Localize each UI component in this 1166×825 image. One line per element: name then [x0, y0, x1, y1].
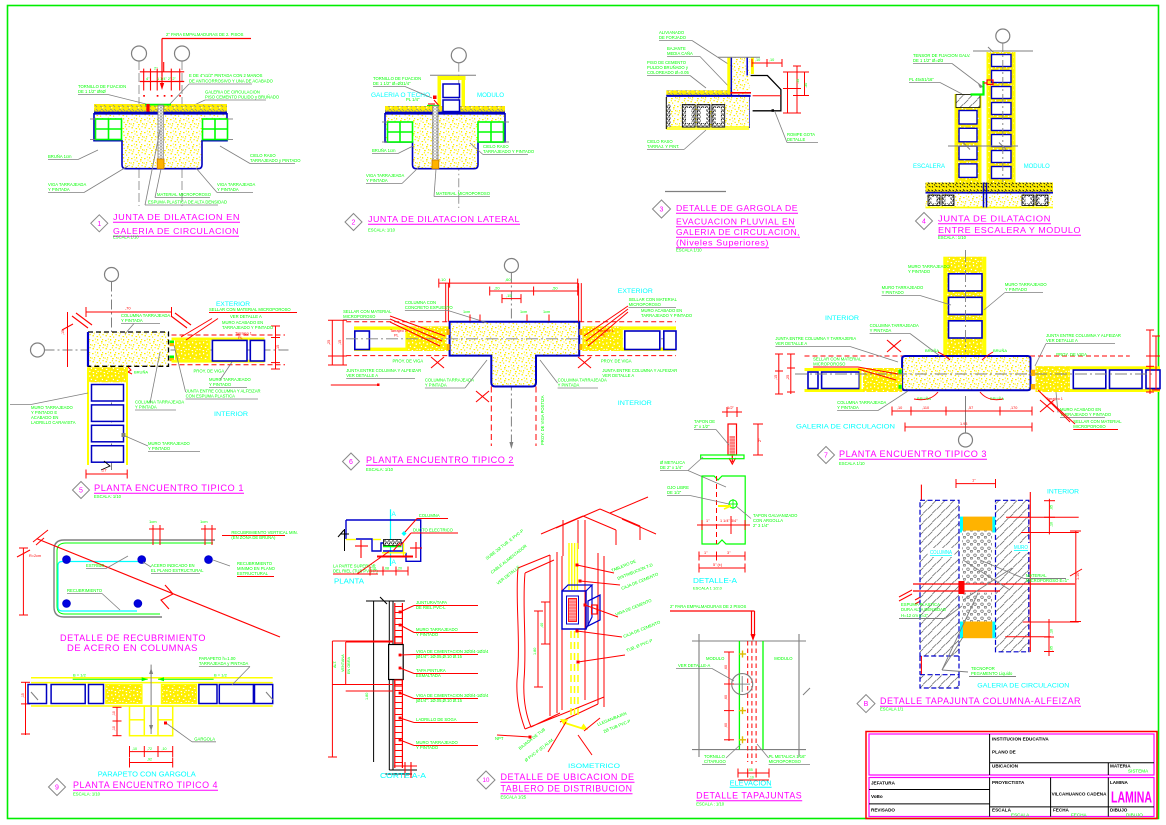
svg-text:PL: PL	[238, 336, 243, 340]
steel plate	[145, 104, 171, 106]
svg-text:INSTITUCION EDUCATIVA: INSTITUCION EDUCATIVA	[992, 737, 1049, 742]
right wall alfeizar	[172, 338, 265, 341]
svg-text:PLANTA ENCUENTRO TIPICO 2: PLANTA ENCUENTRO TIPICO 2	[366, 455, 514, 465]
svg-text:VER DETALLE A: VER DETALLE A	[602, 373, 634, 378]
gargoyle spout outline	[751, 76, 781, 111]
svg-text:ALT.: ALT.	[333, 661, 337, 668]
svg-text:DETALLE-A: DETALLE-A	[693, 578, 737, 585]
red dim vertical	[728, 652, 730, 741]
separator line	[665, 191, 726, 193]
svg-text:,10: ,10	[1050, 522, 1054, 527]
svg-text:,170: ,170	[1010, 406, 1017, 410]
column verticals	[561, 556, 563, 710]
svg-text:1cm: 1cm	[543, 310, 550, 314]
bottom yellow line	[31, 705, 273, 707]
svg-text:5: 5	[79, 488, 83, 495]
svg-text:,70: ,70	[125, 306, 131, 311]
gargola left dims	[116, 707, 118, 735]
svg-text:JUNTA DE DILATACION: JUNTA DE DILATACION	[938, 214, 1051, 224]
stem dashed red	[490, 387, 492, 447]
svg-text:LAMINA: LAMINA	[1111, 790, 1152, 807]
title detail 1	[91, 215, 108, 232]
svg-text:Y PINTADO: Y PINTADO	[209, 382, 232, 387]
gray leaders crossing	[963, 560, 1010, 590]
svg-text:Y PINTADO: Y PINTADO	[148, 446, 171, 451]
break diagonal red	[37, 539, 280, 637]
svg-text:CORTE A-A: CORTE A-A	[380, 773, 426, 780]
svg-text:,15: ,15	[774, 375, 778, 380]
red stud dots	[143, 95, 145, 97]
svg-text:PLANTA: PLANTA	[334, 579, 364, 586]
svg-text:MICROPOROSO: MICROPOROSO	[813, 362, 846, 367]
svg-text:VoBo: VoBo	[871, 794, 883, 799]
svg-text:,60: ,60	[724, 665, 728, 670]
mid level line	[948, 145, 1018, 147]
detail 7: planta encuentro tipico 3	[774, 250, 1160, 466]
svg-text:JUNTA DE DILATACION LATERAL: JUNTA DE DILATACION LATERAL	[368, 214, 520, 224]
slab top line	[385, 112, 505, 114]
bottom dims	[738, 772, 769, 774]
svg-text:.27: .27	[101, 468, 107, 473]
title block	[866, 732, 1157, 819]
svg-text:MODULO: MODULO	[1024, 163, 1050, 170]
main column concrete	[88, 332, 169, 366]
title detail 2	[345, 214, 362, 231]
svg-text:1cm: 1cm	[520, 310, 527, 314]
top yellow lines	[31, 677, 273, 679]
svg-text:MICROPOROSO: MICROPOROSO	[629, 302, 662, 307]
svg-text:TARRAJEADO Y PINTADO: TARRAJEADO Y PINTADO	[483, 149, 535, 154]
green span arrows	[73, 678, 148, 680]
expansion joint strip	[158, 105, 163, 159]
svg-text:1cm: 1cm	[200, 519, 208, 524]
conduits top yellow	[568, 543, 570, 590]
svg-text:10: 10	[483, 777, 490, 784]
tablero panel blue	[562, 591, 586, 629]
svg-text:,05: ,05	[1050, 505, 1054, 510]
columna hatched	[920, 500, 959, 656]
svg-text:INTERIOR: INTERIOR	[618, 400, 652, 407]
svg-text:Y PINTADA: Y PINTADA	[121, 318, 143, 323]
svg-text:TARRAJEADO Y PINTADO: TARRAJEADO Y PINTADO	[641, 313, 693, 318]
slab top line	[94, 112, 227, 114]
svg-text:MODULO: MODULO	[477, 92, 504, 99]
svg-text:R=2cm: R=2cm	[29, 554, 41, 558]
red dashed line top	[805, 355, 941, 357]
title detail 8	[857, 695, 875, 713]
svg-text:Y PINTADO: Y PINTADO	[908, 269, 931, 274]
svg-text:,10: ,10	[769, 58, 774, 62]
svg-text:ESCALA 1/1: ESCALA 1/1	[880, 707, 904, 712]
svg-text:.10: .10	[440, 277, 446, 282]
isometrico: tablero de distribucion	[477, 497, 662, 800]
svg-text:,57: ,57	[968, 406, 973, 410]
detail 5: planta encuentro tipico 1	[10, 268, 297, 500]
svg-text:BRUÑA 1cm: BRUÑA 1cm	[372, 148, 396, 153]
title detail 10	[477, 771, 495, 789]
red dims above spout	[752, 62, 782, 64]
tall right dim	[1075, 531, 1077, 622]
svg-text:MICROPOROSO: MICROPOROSO	[769, 759, 802, 764]
svg-text:INTERIOR: INTERIOR	[1047, 489, 1079, 496]
svg-text:B: B	[864, 701, 869, 708]
main column	[902, 356, 1030, 390]
grid circle left	[31, 343, 45, 357]
top gray line	[430, 74, 476, 76]
slab top line	[666, 95, 750, 97]
svg-text:CON ESPUMA PLASTICA: CON ESPUMA PLASTICA	[186, 394, 236, 399]
svg-text:DE 1 1/2" Ø=Ø3: DE 1 1/2" Ø=Ø3	[913, 58, 944, 63]
svg-text:E DE 4"x1/2" PINTADA CON 2 MAN: E DE 4"x1/2" PINTADA CON 2 MANOS	[189, 73, 263, 78]
svg-text:1": 1"	[972, 478, 976, 483]
svg-text:,50: ,50	[552, 285, 558, 290]
red leaders with dots	[577, 565, 614, 573]
svg-text:PROY. DE VIGA: PROY. DE VIGA	[194, 369, 225, 374]
svg-text:,10: ,10	[162, 747, 167, 751]
detail 1: junta de dilatacion en galeria de circulacion	[48, 32, 301, 240]
centerline	[510, 273, 512, 445]
red X marks	[431, 357, 444, 368]
expansion joint strip	[433, 106, 438, 160]
svg-text:TABLERO DE DISTRIBUCION: TABLERO DE DISTRIBUCION	[501, 784, 633, 794]
yellow hook	[718, 505, 731, 507]
svg-text:PLANTA ENCUENTRO TIPICO 1: PLANTA ENCUENTRO TIPICO 1	[94, 483, 244, 493]
svg-text:Y PINTADA: Y PINTADA	[48, 187, 70, 192]
wall blocks	[28, 685, 47, 704]
red X marks	[887, 340, 901, 352]
svg-text:DIBUJO: DIBUJO	[1126, 812, 1143, 817]
red fixing detail	[433, 96, 437, 100]
detail 2: junta de dilatacion lateral	[345, 48, 535, 233]
window grid left	[388, 122, 413, 142]
svg-text:PL: PL	[394, 334, 399, 338]
svg-text:GALERIA DE CIRCULACION: GALERIA DE CIRCULACION	[796, 424, 895, 431]
dim lines	[537, 611, 539, 687]
svg-text:CONCRETO EXPUESTO: CONCRETO EXPUESTO	[405, 305, 454, 310]
title detail 5	[73, 482, 90, 499]
svg-text:MICROPOROSO: MICROPOROSO	[1073, 424, 1106, 429]
svg-text:ESCALERA: ESCALERA	[913, 163, 946, 170]
modulo wall above	[438, 76, 466, 80]
corner dim verticals	[445, 283, 447, 322]
anchor plate red comb	[140, 71, 184, 73]
right edge dims	[1149, 330, 1151, 394]
svg-text:JEFATURA: JEFATURA	[871, 781, 896, 786]
wall break mark	[101, 461, 110, 470]
detail circle	[732, 674, 753, 695]
magenta box top	[869, 734, 1154, 775]
outer red frame	[866, 732, 1157, 819]
left dim	[22, 548, 24, 615]
svg-text:SISTEMA: SISTEMA	[1128, 769, 1149, 774]
svg-text:,20: ,20	[397, 567, 402, 571]
bottom dims	[699, 555, 745, 557]
svg-text:ELEVACION: ELEVACION	[730, 781, 772, 788]
yellow screw marks	[739, 653, 746, 655]
top red dim	[86, 311, 172, 313]
svg-text:Tarrajeo 1: Tarrajeo 1	[597, 329, 614, 333]
svg-text:VER DETALLE-A: VER DETALLE-A	[678, 663, 710, 668]
svg-text:Y PINTADA: Y PINTADA	[425, 383, 447, 388]
red marks	[360, 540, 362, 558]
svg-text:Y PINTADA: Y PINTADA	[837, 405, 859, 410]
grid circle top	[105, 268, 119, 282]
svg-text:,15: ,15	[61, 330, 65, 335]
orange joint pads	[447, 329, 450, 335]
svg-text:ESCALA: 1/10: ESCALA: 1/10	[73, 792, 101, 797]
left wall	[805, 368, 903, 371]
svg-text:1 1/4" 3/4": 1 1/4" 3/4"	[720, 519, 738, 523]
svg-text:,10: ,10	[749, 776, 754, 780]
grid circle	[451, 48, 466, 63]
svg-text:,10: ,10	[371, 567, 376, 571]
svg-text:,15: ,15	[21, 693, 25, 698]
svg-text:1.10: 1.10	[1076, 573, 1080, 580]
bottom red dim	[86, 473, 127, 475]
svg-text:GARGOLA: GARGOLA	[194, 737, 215, 742]
svg-text:MEDIA CAÑA: MEDIA CAÑA	[667, 51, 693, 56]
svg-text:DE ANTICORROSIVO Y UNA DE ACAB: DE ANTICORROSIVO Y UNA DE ACABADO	[189, 79, 274, 84]
orange joint pads	[1031, 370, 1036, 376]
slab body concrete	[94, 114, 227, 169]
svg-text:6: 6	[349, 459, 353, 466]
top dims	[439, 282, 578, 284]
svg-text:GALERIA DE CIRCULACION,: GALERIA DE CIRCULACION,	[676, 227, 800, 237]
window grid left	[96, 119, 122, 140]
steel bars	[63, 556, 71, 564]
svg-text:VER DETALLE A: VER DETALLE A	[775, 341, 807, 346]
right wall	[1036, 366, 1160, 369]
svg-text:1.93: 1.93	[960, 422, 967, 426]
grid line B	[181, 61, 183, 206]
slab body	[666, 97, 749, 127]
ladder rungs	[395, 606, 403, 608]
svg-text:2: 2	[352, 220, 356, 227]
svg-text:COLOREADO Ø=0.05: COLOREADO Ø=0.05	[647, 70, 689, 75]
joint pads column-wall	[170, 341, 175, 344]
svg-text:DETALLE DE GARGOLA DE: DETALLE DE GARGOLA DE	[676, 203, 798, 213]
red joint lines	[913, 583, 1075, 585]
svg-text:A: A	[392, 559, 397, 566]
svg-text:PL: PL	[601, 334, 606, 338]
svg-text:VILCAHUANCO CADENA: VILCAHUANCO CADENA	[1052, 792, 1108, 797]
red diamond marker	[402, 531, 407, 536]
svg-text:FECHA: FECHA	[1071, 812, 1088, 817]
svg-text:,10: ,10	[112, 711, 116, 716]
svg-text:DETALLE TAPAJUNTAS: DETALLE TAPAJUNTAS	[696, 791, 802, 801]
svg-text:,110: ,110	[922, 406, 929, 410]
svg-text:Tarrajeo 1: Tarrajeo 1	[235, 332, 252, 336]
svg-text:VER DETALLE A: VER DETALLE A	[346, 373, 378, 378]
svg-text:ESCALA 1 1/2.0: ESCALA 1 1/2.0	[693, 586, 723, 591]
detalle tapajuntas : elevacion	[670, 604, 810, 807]
svg-text:ESCALA : 1/10: ESCALA : 1/10	[696, 802, 725, 807]
joint gap lines	[983, 183, 985, 208]
grid circle bottom	[959, 433, 973, 447]
svg-text:DE FORJADO: DE FORJADO	[659, 35, 687, 40]
modulo wall blocks	[443, 84, 460, 98]
bottom yellow arrows	[565, 723, 584, 729]
detail 8: detalle tapajunta columna-alfeizar	[857, 478, 1082, 713]
grid line A	[138, 61, 140, 206]
main tube green rect	[702, 476, 745, 544]
svg-text:1.80: 1.80	[533, 648, 537, 655]
foam blocks orange	[963, 517, 992, 533]
svg-text:INTERIOR: INTERIOR	[825, 315, 859, 322]
joint center line	[150, 665, 152, 734]
modulo wall column	[988, 52, 1015, 183]
svg-text:Y PINTADA: Y PINTADA	[870, 328, 892, 333]
tablero niche box	[384, 540, 402, 546]
red cross	[697, 524, 750, 526]
svg-text:DETALLE TAPAJUNTA COLUMNA-AL: DETALLE TAPAJUNTA COLUMNA-ALFEIZAR	[880, 696, 1081, 706]
green joint pads left	[899, 370, 902, 374]
svg-text:PROY. DE VIGA: PROY. DE VIGA	[601, 358, 632, 363]
svg-text:ESCALA: 1/10: ESCALA: 1/10	[94, 494, 122, 499]
svg-text:ISOMETRICO: ISOMETRICO	[568, 763, 620, 770]
svg-text:BRUÑA: BRUÑA	[993, 348, 1007, 353]
svg-text:,60: ,60	[724, 695, 728, 700]
svg-text:TARRAJEADO Y PINTADO: TARRAJEADO Y PINTADO	[1060, 412, 1112, 417]
svg-text:,15: ,15	[506, 293, 512, 298]
svg-text:GALERIA DE CIRCULACION: GALERIA DE CIRCULACION	[977, 683, 1069, 690]
grid circle	[504, 259, 518, 273]
svg-text:PISO CEMENTO PULIDO y BRUÑADO: PISO CEMENTO PULIDO y BRUÑADO	[205, 95, 280, 100]
hollow blocks left	[928, 195, 940, 206]
red dashed wall lines left	[346, 321, 449, 323]
svg-text:TARRAJEADA y PINTADA: TARRAJEADA y PINTADA	[199, 661, 249, 666]
svg-text:Y PINTADO: Y PINTADO	[882, 290, 905, 295]
slab body	[385, 114, 505, 169]
floor screed band	[94, 104, 227, 113]
svg-text:A: A	[392, 511, 397, 518]
svg-text:EVACUACION PLUVIAL EN: EVACUACION PLUVIAL EN	[676, 217, 795, 227]
svg-text:,10: ,10	[1050, 629, 1054, 634]
svg-text:LADRILLO DE SOGA: LADRILLO DE SOGA	[416, 717, 457, 722]
yellow wall lines	[346, 539, 356, 541]
tablero box in section	[389, 645, 404, 680]
floor screed band	[385, 106, 505, 113]
green strips	[738, 641, 740, 750]
svg-text:,60: ,60	[724, 723, 728, 728]
T column	[450, 322, 580, 387]
svg-text:2" x 1/2": 2" x 1/2"	[694, 424, 710, 429]
svg-text:4: 4	[922, 219, 926, 226]
gargola box	[130, 706, 173, 736]
detail 3: detalle de gargola de evacuacion pluvial	[647, 30, 818, 253]
svg-text:,92: ,92	[147, 758, 152, 762]
svg-text:INTERIOR: INTERIOR	[214, 411, 248, 418]
svg-text:1.80: 1.80	[365, 693, 369, 700]
title detail 4	[916, 213, 933, 230]
left red line	[920, 485, 922, 679]
svg-text:C/TARUGO: C/TARUGO	[704, 759, 727, 764]
svg-text:LAMINA: LAMINA	[1110, 780, 1129, 785]
svg-text:EL PLANO ESTRUCTURAL: EL PLANO ESTRUCTURAL	[151, 568, 204, 573]
svg-text:B = 1/2: B = 1/2	[214, 673, 228, 678]
svg-text:DUCTO ELECTRICO: DUCTO ELECTRICO	[413, 528, 454, 533]
left dims	[25, 682, 27, 735]
svg-text:9: 9	[55, 785, 59, 792]
grid circle A	[132, 46, 147, 61]
svg-text:PROY. DE VIGA: PROY. DE VIGA	[1056, 352, 1087, 357]
svg-text:ESTRUCTURAL: ESTRUCTURAL	[237, 571, 269, 576]
svg-text:ESPUMA PLASTICA DE ALTA DENSID: ESPUMA PLASTICA DE ALTA DENSIDAD	[148, 200, 227, 205]
top wall	[943, 257, 947, 356]
green angle plate	[971, 81, 984, 95]
wall left panel outline	[518, 555, 554, 573]
blue wall outline	[346, 520, 421, 561]
column outline gray	[54, 540, 215, 617]
svg-text:RECUBRIMIENTO: RECUBRIMIENTO	[67, 588, 103, 593]
svg-text:.30: .30	[804, 83, 808, 88]
svg-text:ESCALA: ESCALA	[992, 808, 1012, 813]
svg-text:SELLAR CON MATERIAL MICROPOROS: SELLAR CON MATERIAL MICROPOROSO	[209, 307, 291, 312]
svg-text:PL 45x51/16": PL 45x51/16"	[909, 77, 934, 82]
wall face edges	[549, 555, 551, 716]
parapet column	[727, 57, 730, 95]
fixing bolt	[146, 104, 149, 115]
svg-text:B = 1/2: B = 1/2	[73, 673, 87, 678]
joint foam block	[157, 159, 164, 169]
right wall	[582, 326, 676, 329]
slab screed band	[666, 90, 730, 96]
svg-text:1/2": 1/2"	[727, 405, 735, 410]
svg-text:DE 1 1/2" Ø=Ø31/4": DE 1 1/2" Ø=Ø31/4"	[373, 81, 411, 86]
detalle-a	[660, 405, 798, 591]
svg-text:MODULO: MODULO	[706, 656, 725, 661]
svg-text:MATERIAL MICROPOROSO: MATERIAL MICROPOROSO	[157, 192, 212, 197]
end break marks	[31, 692, 38, 700]
detalle de recubrimiento de acero en columnas	[17, 519, 298, 653]
bolt shaft	[728, 424, 737, 455]
svg-text:UBICACION: UBICACION	[992, 764, 1019, 769]
left dims	[332, 640, 393, 642]
left dims	[778, 354, 780, 394]
svg-text:REVISADO: REVISADO	[871, 808, 895, 813]
joint foam block	[432, 160, 439, 169]
switch flap	[588, 595, 600, 626]
svg-text:LADRILLO CARAVISTA: LADRILLO CARAVISTA	[31, 420, 76, 425]
top gray line	[973, 50, 1033, 52]
svg-text:DETALLE: DETALLE	[787, 137, 806, 142]
muro hatched right	[996, 500, 1029, 652]
svg-text:Y PINTADO: Y PINTADO	[1005, 287, 1028, 292]
svg-text:DE 1 1/2" Ø6Ø: DE 1 1/2" Ø6Ø	[78, 89, 107, 94]
svg-text:2" 3 1/4": 2" 3 1/4"	[753, 523, 769, 528]
svg-text:BRUÑA: BRUÑA	[134, 370, 148, 375]
leaders bottom	[548, 722, 566, 752]
svg-text:(Niveles Superiores): (Niveles Superiores)	[676, 238, 769, 248]
modulo wall blocks	[992, 55, 1012, 67]
svg-text:ESCALA: ESCALA	[1011, 812, 1030, 817]
svg-text:NPT: NPT	[495, 736, 504, 741]
svg-text:PEGAMENTO Liquido: PEGAMENTO Liquido	[971, 671, 1013, 676]
title detail 7	[818, 447, 835, 464]
escalera wall column	[956, 94, 981, 183]
svg-text:,08: ,08	[384, 567, 389, 571]
far left dims	[331, 320, 333, 365]
svg-text:VER DETALLE A: VER DETALLE A	[1046, 338, 1078, 343]
svg-text:DE 1/2": DE 1/2"	[667, 490, 682, 495]
grid circle	[996, 29, 1010, 43]
svg-text:ESCALA: 1/10: ESCALA: 1/10	[366, 467, 394, 472]
green plate	[427, 105, 439, 107]
svg-text:MICROPOROSO: MICROPOROSO	[343, 314, 376, 319]
svg-text:1cm: 1cm	[149, 519, 157, 524]
svg-text:MODULO: MODULO	[774, 656, 793, 661]
wall bottom edges	[560, 697, 604, 715]
